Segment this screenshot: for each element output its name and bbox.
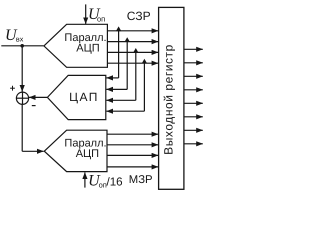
svg-text:МЗР: МЗР — [129, 174, 153, 186]
svg-text:Выходной регистр: Выходной регистр — [162, 44, 176, 155]
svg-text:вх: вх — [16, 35, 24, 44]
svg-text:СЗР: СЗР — [127, 9, 151, 23]
svg-text:АЦП: АЦП — [76, 148, 99, 160]
svg-text:оп: оп — [97, 14, 105, 23]
svg-text:ЦАП: ЦАП — [69, 90, 99, 104]
svg-text:АЦП: АЦП — [76, 42, 99, 54]
svg-text:/16: /16 — [107, 176, 123, 189]
